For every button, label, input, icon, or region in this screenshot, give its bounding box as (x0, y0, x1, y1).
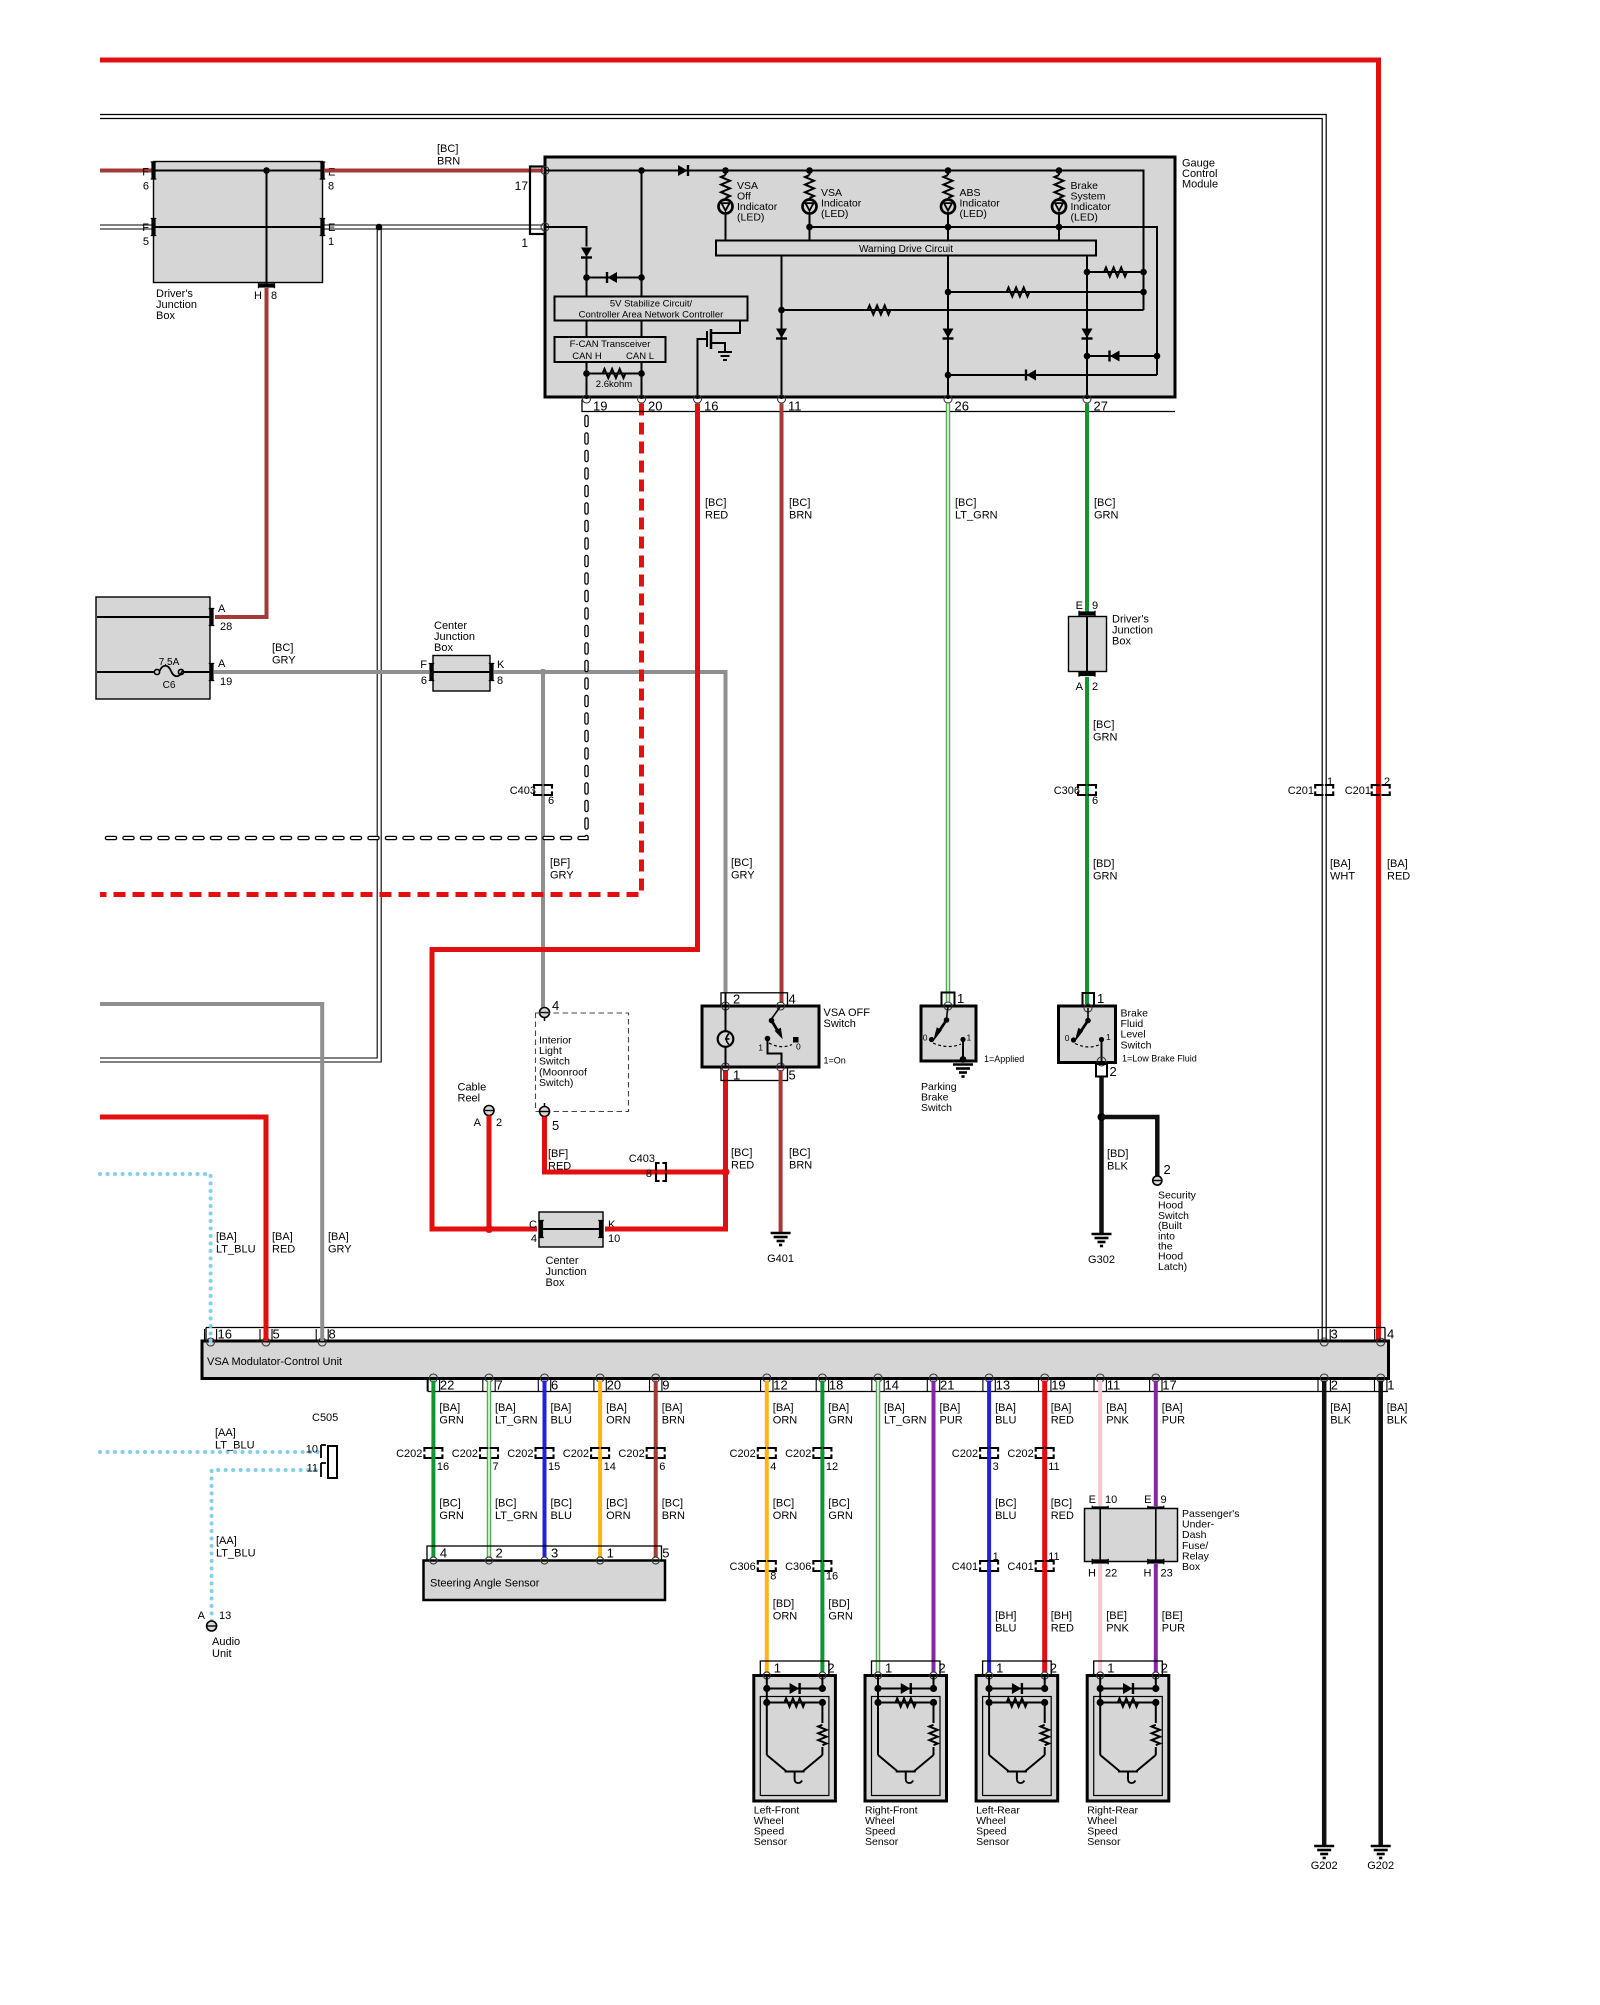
connector C202 pin 12 (813, 1448, 831, 1458)
svg-text:0: 0 (1065, 1033, 1070, 1043)
wire CANL vert (641, 171, 643, 297)
wire [BC] BRN H8 down and to A28 (215, 288, 267, 617)
pin E9 of passenger box (1148, 1506, 1164, 1510)
svg-text:[BA]: [BA] (328, 1231, 349, 1243)
junction VSA Ind tap (806, 167, 813, 174)
pin 1 circle parking (944, 1002, 952, 1010)
svg-text:H: H (1144, 1568, 1152, 1580)
wire CANL to pin20 (641, 362, 643, 399)
svg-text:(LED): (LED) (1071, 212, 1098, 224)
svg-text:LT_GRN: LT_GRN (495, 1415, 538, 1427)
wire [BE] PNK to RR sensor (1098, 1564, 1102, 1672)
svg-text:C202: C202 (730, 1448, 756, 1460)
svg-text:C201: C201 (1288, 785, 1314, 797)
wire [BC] GRN A2 to C306 (1085, 677, 1089, 1004)
svg-text:ORN: ORN (606, 1415, 631, 1427)
svg-text:4: 4 (531, 1233, 537, 1245)
svg-text:2: 2 (1161, 1661, 1168, 1676)
connector C202 pin 7 (480, 1448, 498, 1458)
svg-text:Switch): Switch) (539, 1077, 573, 1089)
svg-text:3: 3 (551, 1546, 558, 1561)
wire [BD] BLK to G302 (1099, 1077, 1104, 1235)
svg-text:ORN: ORN (773, 1510, 798, 1522)
module rail y227 (810, 227, 1158, 375)
wire [BC] RED K10 to VSA OFF pin 1 (605, 1070, 726, 1229)
svg-text:C505: C505 (312, 1412, 338, 1424)
svg-text:BLU: BLU (995, 1510, 1016, 1522)
resistor 2.6kohm (587, 373, 642, 375)
wire [BC] BRN pin11 to VSA OFF pin4 (780, 404, 784, 1004)
pin 13 of VSA unit (bottom) (985, 1374, 993, 1382)
svg-text:9: 9 (662, 1378, 669, 1393)
wire [BF] RED cable reel (487, 1116, 492, 1230)
wire VSAIND to warning box (809, 227, 811, 241)
wire [BC] GRN pin27 down (1085, 404, 1089, 613)
pin 1 of VSA unit (bottom) (1377, 1374, 1385, 1382)
svg-text:11: 11 (1107, 1378, 1121, 1393)
svg-text:4: 4 (552, 998, 559, 1013)
diode down ABS (943, 329, 954, 339)
svg-text:C201: C201 (1345, 785, 1371, 797)
wire [BA] ORN from pin 20 (598, 1381, 602, 1455)
svg-text:1: 1 (1097, 991, 1104, 1006)
wire [BE] PUR to RR sensor (1154, 1564, 1158, 1672)
svg-text:C202: C202 (952, 1448, 978, 1460)
svg-text:Box: Box (546, 1277, 565, 1289)
svg-text:[BA]: [BA] (551, 1402, 572, 1414)
wire [BC] WHT F5-E1 through box (155, 226, 322, 228)
pin 1 circle brake fluid (1084, 1004, 1092, 1012)
svg-text:[BE]: [BE] (1162, 1610, 1183, 1622)
svg-text:[BH]: [BH] (995, 1610, 1016, 1622)
interior light switch dashed box (536, 1013, 629, 1112)
pin 5 of steering angle sensor (652, 1557, 659, 1564)
svg-text:VSA Modulator-Control Unit: VSA Modulator-Control Unit (207, 1356, 342, 1368)
svg-text:6: 6 (551, 1378, 558, 1393)
svg-text:[BA]: [BA] (662, 1402, 683, 1414)
wire dashed RED from gauge pin 20 (100, 404, 642, 895)
wire [BA] ORN from pin 12 (765, 1381, 769, 1455)
svg-text:11: 11 (307, 1463, 318, 1475)
svg-text:2.6kohm: 2.6kohm (596, 379, 633, 390)
svg-text:16: 16 (704, 399, 718, 414)
svg-text:GRY: GRY (731, 870, 755, 882)
fuse 7.5A C6 (97, 671, 155, 673)
center junction box (upper) (433, 656, 490, 692)
switch blade parking (947, 1006, 949, 1019)
svg-text:Switch: Switch (824, 1018, 856, 1030)
wire inside center junction box (433, 671, 490, 673)
pin 4 of steering angle sensor (430, 1557, 437, 1564)
svg-text:C202: C202 (507, 1448, 533, 1460)
svg-text:3: 3 (993, 1461, 999, 1473)
svg-text:4: 4 (789, 992, 796, 1007)
driver's junction box 2 (1069, 617, 1107, 672)
svg-text:1: 1 (328, 236, 334, 248)
svg-text:BLK: BLK (1330, 1415, 1351, 1427)
pin A13 of audio unit (207, 1621, 217, 1631)
pin 17 (541, 167, 549, 175)
pin 12 of VSA unit (bottom) (763, 1374, 771, 1382)
wire [BA] RED to pin 5 (100, 1117, 266, 1341)
pin K10 (599, 1221, 603, 1238)
wire [BA] GRY to pin 8 (100, 1004, 322, 1341)
connector C201 pin 2 (1372, 785, 1390, 795)
svg-text:22: 22 (1105, 1568, 1117, 1580)
svg-text:[BC]: [BC] (773, 1498, 794, 1510)
svg-text:K: K (497, 659, 505, 671)
svg-text:19: 19 (593, 399, 607, 414)
VSA OFF switch box (702, 1006, 819, 1067)
pin 3 of steering angle sensor (541, 1557, 548, 1564)
wire [BA] BRN from pin 9 (654, 1381, 658, 1455)
ground at parking brake switch (953, 1063, 973, 1066)
gauge control module box (545, 157, 1175, 397)
svg-text:(LED): (LED) (960, 208, 987, 220)
svg-text:2: 2 (1050, 1661, 1057, 1676)
switch contact 1 and throw (765, 1036, 771, 1042)
steering angle sensor box (424, 1561, 666, 1601)
svg-text:A: A (474, 1117, 482, 1129)
svg-text:1: 1 (1106, 1032, 1111, 1042)
svg-text:Box: Box (434, 642, 453, 654)
svg-text:BRN: BRN (789, 510, 812, 522)
pin 3 of VSA unit (1320, 1338, 1328, 1346)
svg-text:1=On: 1=On (824, 1056, 846, 1066)
svg-text:[BA]: [BA] (1162, 1402, 1183, 1414)
svg-text:0: 0 (796, 1042, 801, 1052)
pin E10 (1092, 1506, 1108, 1510)
svg-text:2: 2 (1331, 1378, 1338, 1393)
svg-text:[BA]: [BA] (828, 1402, 849, 1414)
svg-text:3: 3 (1331, 1327, 1338, 1342)
wire inside Driver's Junction Box F6-E8 (155, 170, 322, 172)
wire [BC] GRY A19 to center junction box (214, 670, 429, 674)
svg-text:A: A (1076, 681, 1084, 693)
resistor row A (1087, 271, 1144, 273)
svg-text:7.5A: 7.5A (159, 657, 180, 668)
svg-text:[BC]: [BC] (439, 1498, 460, 1510)
svg-text:1: 1 (967, 1033, 972, 1043)
svg-text:Box: Box (156, 310, 175, 322)
connector C202 pin 6 (647, 1448, 665, 1458)
pin E8 (320, 162, 324, 179)
connector C202 pin 4 (758, 1448, 776, 1458)
gauge module pin strip (582, 400, 1175, 412)
svg-text:1: 1 (993, 1551, 999, 1563)
wire pin1 entry (545, 227, 587, 247)
svg-text:[BF]: [BF] (550, 857, 570, 869)
wire [BA] LT_BLU to pin 16 (100, 1174, 211, 1341)
svg-text:[BA]: [BA] (606, 1402, 627, 1414)
diode D1 on rail (678, 165, 688, 176)
svg-text:11: 11 (1048, 1551, 1059, 1563)
svg-text:8: 8 (328, 181, 334, 193)
svg-text:14: 14 (885, 1378, 899, 1393)
svg-text:A: A (218, 658, 226, 670)
svg-text:GRN: GRN (1094, 510, 1119, 522)
svg-text:5: 5 (662, 1546, 669, 1561)
svg-text:Switch: Switch (921, 1102, 952, 1114)
wire [BC] BLU to steering sensor (543, 1452, 547, 1558)
pin F5 (151, 219, 155, 236)
pin 2 of VSA unit (bottom) (1320, 1374, 1328, 1382)
wire [BA] LT_GRN from pin 7 (487, 1381, 492, 1455)
svg-text:27: 27 (1094, 399, 1108, 414)
pin H23 (1148, 1559, 1164, 1563)
connector C401 pin 11 (1036, 1561, 1054, 1571)
svg-text:[BD]: [BD] (773, 1598, 794, 1610)
wire [BF] GRY down to interior light switch (541, 672, 545, 1008)
pin 11 of module (778, 395, 786, 403)
svg-text:8: 8 (497, 675, 503, 687)
connector C202 pin 3 (980, 1448, 998, 1458)
svg-text:[BA]: [BA] (1387, 858, 1408, 870)
wire [BC] WHT branch down-left (100, 229, 381, 1062)
svg-text:8: 8 (271, 290, 277, 302)
svg-text:A: A (198, 1610, 206, 1622)
svg-text:PNK: PNK (1106, 1415, 1129, 1427)
connector C202 pin 14 (591, 1448, 609, 1458)
wire [BD] ORN to LF sensor (765, 1565, 769, 1673)
warning drive circuit box (716, 241, 1096, 256)
svg-text:ORN: ORN (773, 1415, 798, 1427)
indicator column ABS (947, 171, 949, 176)
svg-text:LT_GRN: LT_GRN (884, 1415, 927, 1427)
diode row y356 (1087, 355, 1157, 357)
pin 1 (541, 223, 549, 231)
svg-text:[BA]: [BA] (216, 1231, 237, 1243)
svg-text:GRN: GRN (439, 1510, 464, 1522)
connector C202 pin 15 (536, 1448, 554, 1458)
svg-text:Unit: Unit (212, 1648, 232, 1660)
svg-text:9: 9 (1092, 600, 1098, 612)
pin 21 of VSA unit (bottom) (930, 1374, 938, 1382)
svg-text:C306: C306 (1054, 785, 1080, 797)
wire CANH to pin19 (586, 362, 588, 399)
svg-text:1: 1 (885, 1661, 892, 1676)
pin 5 of interior light switch (540, 1107, 550, 1117)
svg-text:RED: RED (1387, 871, 1410, 883)
svg-text:Latch): Latch) (1158, 1261, 1187, 1273)
svg-text:13: 13 (219, 1610, 231, 1622)
svg-text:[BC]: [BC] (1094, 497, 1115, 509)
svg-text:RED: RED (705, 510, 728, 522)
resistor row C (782, 309, 1144, 311)
pin K8 of center junction box (489, 664, 493, 681)
svg-text:(LED): (LED) (737, 212, 764, 224)
svg-text:2: 2 (1384, 776, 1390, 788)
svg-text:[BC]: [BC] (1051, 1498, 1072, 1510)
svg-text:Steering Angle Sensor: Steering Angle Sensor (430, 1578, 540, 1590)
svg-text:1: 1 (1327, 776, 1333, 788)
wire [BA] LT_GRN from pin 14 (876, 1381, 881, 1673)
svg-text:[BA]: [BA] (940, 1402, 961, 1414)
svg-text:C401: C401 (952, 1561, 978, 1573)
svg-text:[BC]: [BC] (731, 1147, 752, 1159)
svg-text:2: 2 (496, 1117, 502, 1129)
svg-text:[BC]: [BC] (828, 1498, 849, 1510)
svg-text:C202: C202 (618, 1448, 644, 1460)
svg-text:1: 1 (1107, 1661, 1114, 1676)
svg-text:Reel: Reel (458, 1092, 481, 1104)
pin 27 of module (1083, 395, 1091, 403)
svg-text:7: 7 (493, 1461, 499, 1473)
wire [BA] PNK from pin 11 (1098, 1381, 1102, 1507)
junction on white wire 2 (754, 224, 760, 230)
wire [BC] ORN to steering sensor (598, 1452, 602, 1558)
svg-text:E: E (1089, 1494, 1096, 1506)
wire [BC] BRN from left edge to F6 (100, 169, 153, 173)
svg-text:Sensor: Sensor (976, 1836, 1010, 1848)
wire dashed WHT from gauge pin 19 (100, 417, 587, 838)
ground G401 (771, 1232, 791, 1235)
svg-text:G302: G302 (1088, 1254, 1115, 1266)
svg-text:C403: C403 (510, 785, 536, 797)
svg-text:2: 2 (1092, 681, 1098, 693)
svg-text:Sensor: Sensor (865, 1836, 899, 1848)
wire [BA] GRN from pin 22 (431, 1381, 435, 1455)
svg-text:BRN: BRN (437, 156, 460, 168)
svg-text:C403: C403 (629, 1153, 655, 1165)
pin H8 (259, 283, 275, 287)
indicator column VSAOFF (725, 171, 727, 176)
svg-text:1: 1 (996, 1661, 1003, 1676)
wire [BC] BRN VSA OFF pin5 to G401 (779, 1070, 783, 1233)
svg-text:CAN L: CAN L (626, 351, 654, 362)
connector C401 pin 1 (980, 1561, 998, 1571)
pin 19 of VSA unit (bottom) (1041, 1374, 1049, 1382)
svg-text:26: 26 (955, 399, 969, 414)
wire [BA] GRN from pin 18 (820, 1381, 824, 1455)
pin 16 of module (694, 395, 702, 403)
connector C202 pin 16 (424, 1448, 442, 1458)
svg-text:[BA]: [BA] (495, 1402, 516, 1414)
pin A2 of cable reel (484, 1106, 494, 1116)
resistor row B (948, 291, 1144, 293)
pin 7 of VSA unit (bottom) (485, 1374, 493, 1382)
svg-text:1: 1 (774, 1661, 781, 1676)
svg-text:F: F (142, 167, 149, 179)
5V stabilize circuit box (555, 297, 748, 321)
svg-text:BLU: BLU (995, 1623, 1016, 1635)
wire [BC] RED pin16 down (432, 404, 698, 1230)
junction red at VSA OFF leg (722, 1168, 730, 1176)
wire inside Driver's Junction Box to H8 (266, 171, 268, 285)
svg-text:[BC]: [BC] (789, 497, 810, 509)
svg-text:10: 10 (1105, 1494, 1117, 1506)
svg-text:11: 11 (788, 399, 802, 414)
svg-text:PNK: PNK (1106, 1623, 1129, 1635)
svg-text:5: 5 (143, 236, 149, 248)
diode left y277 (587, 277, 642, 279)
svg-text:ORN: ORN (773, 1611, 798, 1623)
svg-text:20: 20 (648, 399, 662, 414)
wire [BC] BLU to C401 (987, 1452, 991, 1568)
svg-text:BRN: BRN (662, 1415, 685, 1427)
diode down pin27 (1082, 329, 1093, 339)
svg-text:1=Applied: 1=Applied (984, 1054, 1024, 1064)
junction red at cable reel (485, 1225, 493, 1233)
module top rail (545, 171, 1144, 311)
svg-text:[BF]: [BF] (548, 1148, 568, 1160)
wire pin27 column (1086, 256, 1088, 400)
wire [BA] BLU from pin 6 (543, 1381, 547, 1455)
svg-text:[BA]: [BA] (995, 1402, 1016, 1414)
pin 22 of VSA unit (bottom) (429, 1374, 437, 1382)
svg-text:C202: C202 (452, 1448, 478, 1460)
svg-text:12: 12 (826, 1461, 838, 1473)
svg-text:5: 5 (552, 1118, 559, 1133)
svg-text:C202: C202 (563, 1448, 589, 1460)
switch blade VSA OFF (772, 1006, 781, 1019)
wire ABS col through warning box (947, 227, 949, 399)
junction Brake tap (1056, 167, 1063, 174)
svg-text:[BD]: [BD] (828, 1598, 849, 1610)
svg-text:G202: G202 (1311, 1860, 1338, 1872)
wire BLK branch to security hood switch (1102, 1117, 1158, 1176)
svg-text:[BA]: [BA] (884, 1402, 905, 1414)
svg-text:WHT: WHT (1330, 871, 1355, 883)
svg-text:[BC]: [BC] (731, 857, 752, 869)
diode down pin11 (776, 329, 787, 339)
svg-text:H: H (1088, 1568, 1096, 1580)
svg-text:[AA]: [AA] (215, 1427, 236, 1439)
svg-text:BLK: BLK (1387, 1415, 1408, 1427)
svg-text:19: 19 (1051, 1378, 1065, 1393)
pin 2 of security hood switch (1153, 1176, 1162, 1185)
svg-text:H: H (254, 290, 262, 302)
svg-text:[BC]: [BC] (705, 497, 726, 509)
svg-text:[BA]: [BA] (1387, 1402, 1408, 1414)
svg-text:RED: RED (731, 1160, 754, 1172)
svg-text:6: 6 (659, 1461, 665, 1473)
svg-text:11: 11 (1048, 1461, 1059, 1473)
svg-text:CAN H: CAN H (572, 351, 602, 362)
svg-text:6: 6 (421, 675, 427, 687)
junction inside Driver's Junction Box (263, 167, 270, 174)
svg-text:Module: Module (1182, 179, 1218, 191)
right-front wheel speed sensor (872, 1661, 941, 1676)
svg-text:PUR: PUR (1162, 1623, 1185, 1635)
brake fluid switch connector (1083, 993, 1095, 1006)
junction 227-VSAIND (806, 224, 813, 231)
wire [BC] RED to C401 (1042, 1452, 1047, 1568)
parking switch contact to ground (962, 1040, 964, 1061)
svg-text:1: 1 (758, 1043, 763, 1053)
svg-text:4: 4 (440, 1546, 447, 1561)
svg-text:[BA]: [BA] (272, 1231, 293, 1243)
pin F6 of center junction box (429, 664, 433, 681)
svg-text:13: 13 (996, 1378, 1010, 1393)
pin C4 (539, 1221, 543, 1238)
svg-text:BLU: BLU (995, 1415, 1016, 1427)
svg-text:10: 10 (306, 1444, 318, 1456)
svg-text:RED: RED (272, 1244, 295, 1256)
pin 14 of VSA unit (bottom) (874, 1374, 882, 1382)
svg-text:1: 1 (607, 1546, 614, 1561)
pin 6 of VSA unit (bottom) (541, 1374, 549, 1382)
diode row y375 (948, 374, 1157, 376)
junction 227-ABS (945, 224, 952, 231)
svg-text:C306: C306 (785, 1561, 811, 1573)
svg-text:RED: RED (548, 1161, 571, 1173)
svg-text:[BA]: [BA] (1330, 1402, 1351, 1414)
svg-text:[BA]: [BA] (1106, 1402, 1127, 1414)
pin E1 (320, 219, 324, 236)
svg-text:17: 17 (515, 179, 529, 193)
svg-text:[BC]: [BC] (272, 642, 293, 654)
